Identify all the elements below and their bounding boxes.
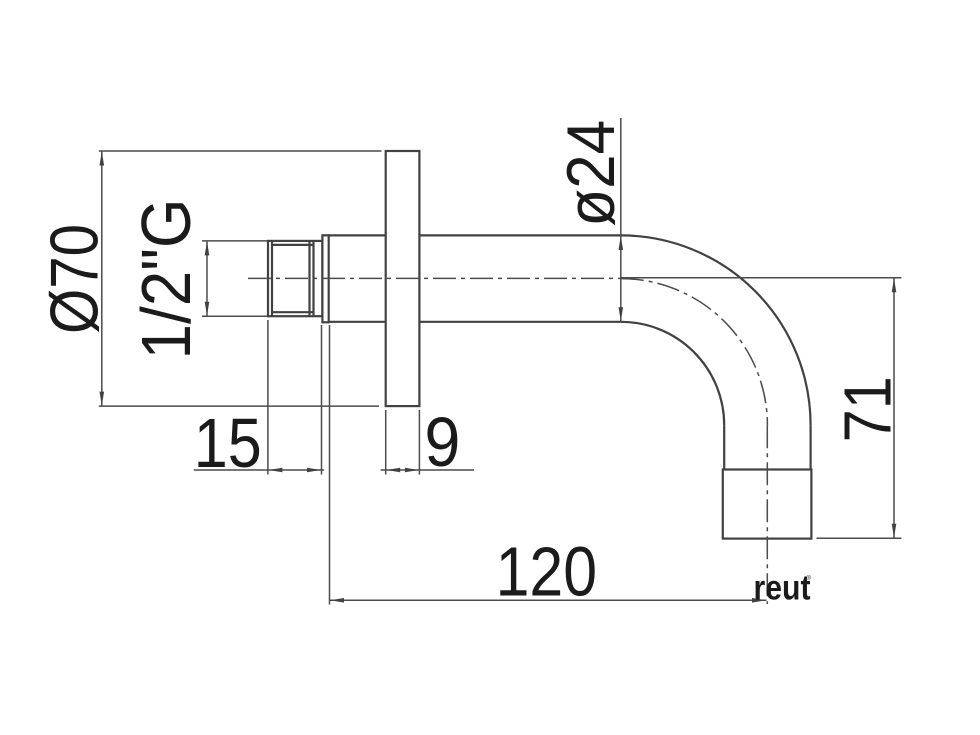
svg-text:ø24: ø24 bbox=[553, 120, 629, 227]
1/2"G extension line bottom bbox=[202, 315, 267, 317]
Ø70 arrow down bbox=[100, 392, 105, 406]
pipe top edge left of plate bbox=[329, 234, 386, 236]
thread root line top bbox=[272, 244, 314, 246]
outlet aerator housing bbox=[723, 470, 812, 539]
centerline bend arc bbox=[621, 279, 768, 426]
vertical pipe left edge bbox=[723, 425, 725, 469]
9 extension line right bbox=[418, 410, 420, 475]
15 dimension line bbox=[194, 469, 324, 471]
15 extension line right bbox=[321, 325, 323, 475]
15 extension line left bbox=[267, 320, 269, 475]
ø24 arrow up bbox=[619, 236, 624, 250]
1/2"G arrow up bbox=[205, 241, 210, 255]
Ø70 extension line top bbox=[99, 150, 382, 152]
Ø70 extension line bottom bbox=[99, 405, 379, 407]
thread runout line bbox=[308, 241, 310, 316]
pipe bottom edge left of plate bbox=[329, 321, 386, 323]
svg-text:reut: reut bbox=[754, 569, 811, 608]
71 extension line top bbox=[621, 277, 902, 279]
thread end line bbox=[312, 241, 314, 316]
svg-text:®: ® bbox=[807, 575, 812, 582]
svg-text:120: 120 bbox=[496, 532, 597, 610]
vertical pipe right edge bbox=[809, 425, 811, 469]
svg-text:Ø70: Ø70 bbox=[37, 224, 113, 334]
Ø70 arrow up bbox=[100, 152, 105, 166]
svg-text:15: 15 bbox=[194, 404, 262, 482]
thread root line bottom bbox=[272, 311, 314, 313]
wall plate Ø70 bbox=[386, 151, 420, 406]
1/2"G arrow down bbox=[205, 302, 210, 316]
bend outer arc bbox=[621, 235, 811, 425]
centerline vertical bbox=[766, 425, 768, 604]
120 arrow right bbox=[752, 598, 766, 603]
collar flange bbox=[322, 235, 328, 322]
71 dimension line bbox=[893, 278, 895, 539]
120 dimension line bbox=[330, 599, 767, 601]
threaded inlet 1/2"G outer profile bbox=[268, 241, 322, 316]
71 extension line bottom bbox=[817, 537, 902, 539]
120 extension line left bbox=[329, 325, 331, 605]
9 extension line left bbox=[385, 410, 387, 475]
71 arrow down bbox=[892, 524, 897, 538]
pipe bottom edge right of plate bbox=[419, 321, 620, 323]
svg-text:1/2"G: 1/2"G bbox=[127, 199, 205, 360]
thread chamfer left bbox=[271, 241, 273, 316]
71 arrow up bbox=[892, 278, 897, 292]
9 arrow right bbox=[405, 468, 419, 473]
Ø70 dimension line bbox=[101, 151, 103, 406]
15 arrow left bbox=[268, 468, 282, 473]
120 arrow left bbox=[330, 598, 344, 603]
1/2"G dimension line bbox=[206, 241, 208, 316]
9 dimension line bbox=[381, 469, 475, 471]
1/2"G extension line top bbox=[202, 240, 267, 242]
15 arrow right bbox=[307, 468, 321, 473]
bend inner arc bbox=[621, 322, 724, 425]
centerline horizontal bbox=[248, 277, 621, 279]
ø24 dimension line bbox=[620, 118, 622, 322]
9 arrow left bbox=[386, 468, 400, 473]
svg-text:71: 71 bbox=[831, 376, 906, 442]
svg-text:9: 9 bbox=[424, 403, 460, 481]
pipe top edge right of plate bbox=[419, 234, 620, 236]
ø24 arrow down bbox=[619, 307, 624, 321]
